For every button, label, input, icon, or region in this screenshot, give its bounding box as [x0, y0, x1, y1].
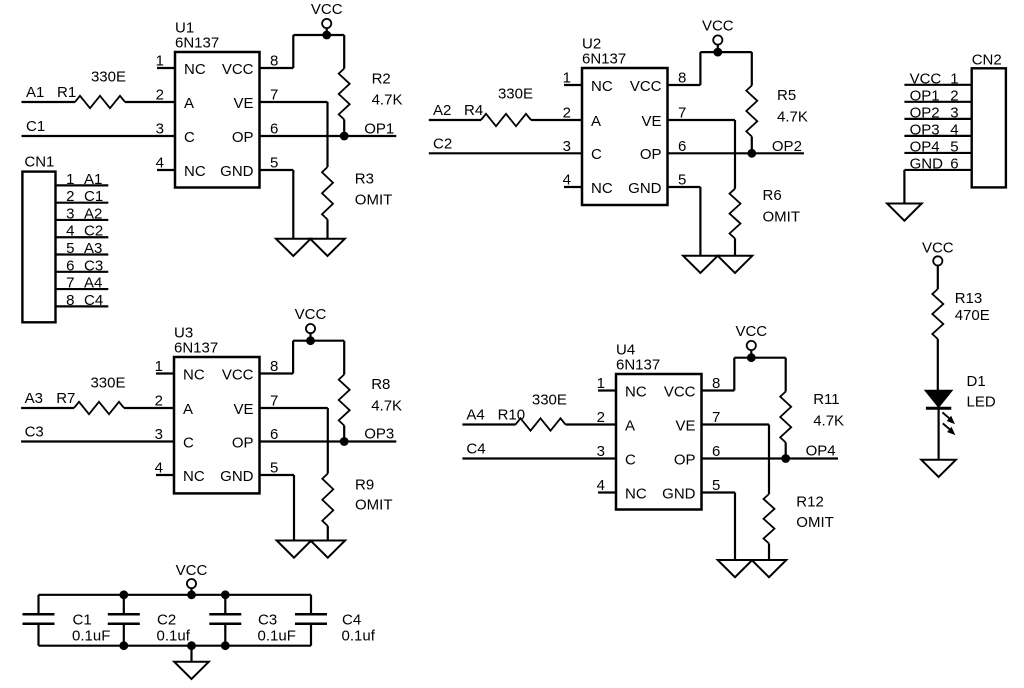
svg-text:VCC: VCC — [311, 1, 343, 18]
resistor R5 4.7K — [746, 52, 808, 153]
junction OP3/R8 — [340, 437, 349, 446]
svg-text:VE: VE — [641, 113, 661, 130]
svg-text:5: 5 — [950, 138, 958, 155]
ground at U2 pin 5 — [683, 256, 718, 273]
svg-text:4: 4 — [66, 223, 74, 240]
svg-text:CN1: CN1 — [24, 154, 54, 171]
svg-text:0.1uF: 0.1uF — [258, 627, 296, 644]
wire U1 pin 5 (GND) to ground — [260, 170, 294, 239]
svg-text:NC: NC — [625, 485, 647, 502]
svg-text:6N137: 6N137 — [174, 340, 218, 357]
svg-text:C3: C3 — [84, 257, 103, 274]
ground at R9 — [311, 541, 346, 558]
CN2 pin 3 wire (OP2) — [904, 104, 971, 121]
LED D1 — [926, 373, 996, 411]
CN2 pin 2 wire (OP1) — [904, 87, 971, 104]
U3 pin 1 stub — [156, 372, 174, 374]
ground at CN2 — [887, 204, 922, 221]
CN1 pin 5 wire (A3) — [56, 240, 109, 257]
power symbol VCC — [735, 323, 767, 358]
svg-text:R9: R9 — [355, 477, 374, 494]
svg-text:OMIT: OMIT — [355, 192, 393, 209]
svg-text:A1: A1 — [26, 84, 44, 101]
svg-text:OP2: OP2 — [910, 104, 940, 121]
wire U3 pin 8 to VCC — [260, 341, 345, 374]
resistor R3 OMIT — [322, 167, 392, 239]
svg-text:6: 6 — [950, 155, 958, 172]
CN1 pin 2 wire (C1) — [56, 188, 109, 205]
ground at R6 — [718, 256, 753, 273]
junction C3 top — [221, 590, 230, 599]
svg-text:R7: R7 — [56, 390, 75, 407]
svg-text:GND: GND — [220, 468, 254, 485]
svg-text:0.1uf: 0.1uf — [157, 627, 191, 644]
svg-text:2: 2 — [66, 188, 74, 205]
wire U4 pin 8 to VCC — [702, 358, 786, 391]
CN2 pin 6 wire (GND) — [904, 155, 971, 172]
svg-text:R8: R8 — [371, 376, 390, 393]
svg-text:C: C — [625, 451, 636, 468]
svg-text:C: C — [183, 434, 194, 451]
svg-text:C2: C2 — [433, 135, 452, 152]
svg-text:R10: R10 — [498, 407, 526, 424]
svg-text:A: A — [183, 401, 193, 418]
U4 pin 1 stub — [598, 389, 616, 391]
wire U2 pin 5 (GND) to ground — [668, 187, 701, 256]
svg-text:NC: NC — [184, 61, 206, 78]
CN1 pin 4 wire (C2) — [56, 223, 109, 240]
svg-text:GND: GND — [220, 163, 254, 180]
node C1 wire — [22, 118, 176, 136]
svg-text:OMIT: OMIT — [796, 514, 834, 531]
junction OP1/R2 — [340, 132, 349, 141]
resistor R7 330E — [56, 375, 125, 415]
svg-text:A2: A2 — [433, 102, 451, 119]
VCC rail (top) of capacitor bank — [39, 594, 312, 596]
resistor R10 330E — [498, 392, 567, 431]
svg-text:A1: A1 — [84, 171, 102, 188]
svg-text:R3: R3 — [355, 171, 374, 188]
svg-text:NC: NC — [625, 383, 647, 400]
U2 pin 1 stub — [564, 84, 582, 86]
junction C2 top — [119, 590, 128, 599]
wire cap rail to ground — [190, 646, 192, 662]
wire U3 pin 5 (GND) to ground — [260, 475, 295, 541]
svg-text:C4: C4 — [466, 441, 485, 458]
ground at R12 — [752, 560, 787, 577]
capacitor C2 0.1uf — [108, 595, 191, 646]
svg-text:470E: 470E — [955, 307, 990, 324]
CN1 pin 8 wire (C4) — [56, 292, 109, 309]
svg-text:C1: C1 — [73, 612, 92, 629]
junction VCC node U1 — [322, 31, 331, 40]
wire U4 pin 5 (GND) to ground — [702, 493, 736, 561]
junction OP4/R11 — [781, 454, 790, 463]
svg-text:OP: OP — [232, 434, 254, 451]
wire U4 pin 7 (VE) to R12 — [702, 425, 770, 495]
node OP1 output wire — [260, 121, 397, 138]
U4 pin 4 stub — [598, 491, 616, 493]
connector CN1 body — [22, 154, 55, 323]
resistor R2 4.7K — [339, 35, 403, 136]
junction VCC node U3 — [306, 336, 315, 345]
svg-text:OP1: OP1 — [364, 121, 394, 138]
svg-text:0.1uF: 0.1uF — [72, 627, 110, 644]
svg-text:VCC: VCC — [910, 70, 942, 87]
op-amp U2 body (6N137 optocoupler) — [582, 36, 668, 206]
svg-text:R13: R13 — [955, 290, 983, 307]
svg-text:VCC: VCC — [222, 61, 254, 78]
svg-text:6N137: 6N137 — [582, 51, 626, 68]
svg-text:VCC: VCC — [735, 323, 767, 340]
svg-text:R4: R4 — [464, 102, 483, 119]
ground rail (bottom) of capacitor bank — [39, 645, 312, 647]
svg-text:C4: C4 — [84, 292, 103, 309]
svg-text:OP: OP — [674, 451, 696, 468]
wire U1 pin 8 to VCC — [260, 35, 345, 68]
node A3 wire — [21, 390, 174, 408]
resistor R6 OMIT — [730, 187, 801, 256]
U3 pin numbers — [155, 358, 279, 477]
node C2 wire — [429, 135, 582, 153]
svg-text:VCC: VCC — [664, 383, 696, 400]
power symbol VCC — [176, 562, 208, 595]
capacitor C3 0.1uF — [209, 595, 296, 646]
svg-text:3: 3 — [950, 104, 958, 121]
svg-text:4.7K: 4.7K — [813, 412, 844, 429]
CN1 pin 1 wire (A1) — [56, 171, 109, 188]
U4 pin numbers — [597, 375, 721, 494]
power symbol VCC — [295, 306, 327, 341]
wire U3 pin 7 (VE) to R9 — [260, 408, 328, 474]
svg-text:C: C — [591, 146, 602, 163]
svg-text:2: 2 — [950, 87, 958, 104]
svg-text:C3: C3 — [258, 612, 277, 629]
resistor R1 330E — [57, 69, 126, 109]
svg-text:VCC: VCC — [630, 78, 662, 95]
wire R13 to D1 — [937, 339, 939, 391]
svg-text:4: 4 — [950, 121, 958, 138]
junction C2 bottom — [119, 641, 128, 650]
junction VCC node U2 — [713, 48, 722, 57]
svg-text:CN2: CN2 — [972, 51, 1002, 68]
svg-text:0.1uf: 0.1uf — [342, 627, 376, 644]
svg-text:D1: D1 — [967, 373, 986, 390]
svg-text:4.7K: 4.7K — [372, 92, 403, 109]
wire VCC to R13 — [937, 265, 939, 289]
wire U1 pin 7 (VE) to R3 — [260, 102, 328, 167]
resistor R12 OMIT — [764, 494, 834, 561]
node OP3 output wire — [260, 426, 397, 443]
node OP2 output wire — [668, 138, 804, 155]
ground at capacitor bank — [174, 662, 209, 679]
resistor R11 4.7K — [780, 358, 844, 459]
U1 pin 4 stub — [157, 169, 175, 171]
U3 pin 4 stub — [156, 474, 174, 476]
CN2 pin 1 wire (VCC) — [904, 70, 971, 87]
connector CN2 body — [972, 51, 1006, 187]
svg-text:OP4: OP4 — [910, 138, 940, 155]
svg-text:C3: C3 — [25, 424, 44, 441]
svg-text:R1: R1 — [57, 84, 76, 101]
svg-text:330E: 330E — [91, 69, 126, 86]
node A2 wire — [429, 102, 582, 120]
svg-text:OP1: OP1 — [910, 87, 940, 104]
svg-text:VCC: VCC — [222, 366, 254, 383]
U2 pin numbers — [563, 70, 687, 189]
power symbol VCC — [311, 1, 343, 35]
junction VCC/cap rail — [187, 590, 196, 599]
CN2 pin 4 wire (OP3) — [904, 121, 971, 138]
svg-text:OMIT: OMIT — [763, 209, 801, 226]
CN2 pin 5 wire (OP4) — [904, 138, 971, 155]
svg-text:6: 6 — [66, 257, 74, 274]
svg-text:A4: A4 — [466, 407, 484, 424]
node A4 wire — [462, 407, 616, 425]
svg-text:OP2: OP2 — [772, 138, 802, 155]
U1 pin numbers — [156, 53, 279, 172]
resistor R4 330E — [464, 86, 533, 127]
svg-text:NC: NC — [183, 366, 205, 383]
svg-text:GND: GND — [910, 155, 944, 172]
svg-text:A3: A3 — [25, 390, 43, 407]
svg-text:6N137: 6N137 — [616, 357, 660, 374]
svg-text:VCC: VCC — [295, 306, 327, 323]
svg-text:LED: LED — [967, 393, 996, 410]
svg-text:R6: R6 — [763, 187, 782, 204]
svg-text:OP3: OP3 — [364, 426, 394, 443]
junction C3 bottom — [221, 641, 230, 650]
node C3 wire — [21, 424, 174, 442]
LED D1 emission arrows — [942, 412, 954, 434]
svg-text:C2: C2 — [157, 612, 176, 629]
svg-text:C4: C4 — [342, 612, 361, 629]
junction ground/cap rail — [187, 641, 196, 650]
svg-text:C: C — [184, 129, 195, 146]
node C4 wire — [462, 441, 616, 459]
capacitor C4 0.1uf — [295, 595, 376, 646]
svg-text:GND: GND — [662, 485, 696, 502]
svg-text:OP: OP — [640, 146, 662, 163]
svg-text:OMIT: OMIT — [355, 497, 393, 514]
svg-text:VE: VE — [233, 401, 253, 418]
ground at U4 pin 5 — [718, 560, 753, 577]
svg-text:GND: GND — [628, 180, 662, 197]
svg-text:A3: A3 — [84, 240, 102, 257]
junction VCC node U4 — [747, 353, 756, 362]
svg-text:R5: R5 — [777, 87, 796, 104]
svg-text:4.7K: 4.7K — [777, 109, 808, 126]
svg-text:NC: NC — [183, 468, 205, 485]
op-amp U3 body (6N137 optocoupler) — [174, 325, 260, 494]
svg-text:A4: A4 — [84, 275, 102, 292]
svg-text:C1: C1 — [26, 118, 45, 135]
wire U2 pin 7 (VE) to R6 — [668, 120, 736, 189]
node A1 wire — [22, 84, 176, 102]
svg-text:C2: C2 — [84, 223, 103, 240]
svg-text:R2: R2 — [372, 71, 391, 88]
svg-text:1: 1 — [950, 70, 958, 87]
ground at D1 — [921, 460, 956, 477]
ground at R3 — [310, 239, 345, 256]
op-amp U4 body (6N137 optocoupler) — [616, 342, 702, 510]
svg-text:4.7K: 4.7K — [371, 398, 402, 415]
CN1 pin 3 wire (A2) — [56, 205, 109, 222]
svg-text:A: A — [184, 95, 194, 112]
ground at U3 pin 5 — [277, 541, 312, 558]
resistor R9 OMIT — [322, 474, 392, 541]
svg-text:1: 1 — [66, 171, 74, 188]
svg-text:330E: 330E — [90, 375, 125, 392]
svg-text:VCC: VCC — [702, 18, 734, 35]
svg-text:R11: R11 — [813, 391, 839, 408]
power symbol VCC — [922, 239, 954, 266]
svg-text:8: 8 — [66, 292, 74, 309]
svg-text:7: 7 — [66, 275, 74, 292]
svg-text:OP3: OP3 — [910, 121, 940, 138]
CN1 pin 6 wire (C3) — [56, 257, 109, 274]
svg-text:5: 5 — [66, 240, 74, 257]
svg-text:OP: OP — [232, 129, 254, 146]
U2 pin 4 stub — [564, 186, 582, 188]
CN1 pin 7 wire (A4) — [56, 275, 109, 292]
U1 pin 1 stub — [157, 67, 175, 69]
resistor R13 470E — [932, 289, 989, 339]
svg-text:NC: NC — [591, 180, 613, 197]
svg-text:330E: 330E — [532, 392, 567, 409]
ground at U1 pin 5 — [276, 239, 311, 256]
svg-text:OP4: OP4 — [806, 442, 836, 459]
svg-text:6N137: 6N137 — [175, 35, 219, 52]
wire U2 pin 8 to VCC — [668, 52, 752, 85]
svg-text:3: 3 — [66, 205, 74, 222]
power symbol VCC — [702, 18, 734, 53]
capacitor C1 0.1uF — [23, 595, 111, 646]
svg-text:A: A — [625, 417, 635, 434]
svg-text:NC: NC — [184, 163, 206, 180]
svg-text:VCC: VCC — [176, 562, 208, 579]
svg-text:330E: 330E — [498, 86, 533, 103]
svg-text:VE: VE — [233, 95, 253, 112]
wire CN2 pin 6 to ground — [903, 170, 905, 204]
op-amp U1 body (6N137 optocoupler) — [175, 20, 260, 188]
svg-text:C1: C1 — [84, 188, 103, 205]
svg-text:R12: R12 — [796, 494, 824, 511]
junction OP2/R5 — [747, 149, 756, 158]
node OP4 output wire — [702, 442, 839, 459]
svg-text:VCC: VCC — [922, 239, 954, 256]
svg-text:VE: VE — [675, 417, 695, 434]
svg-text:A2: A2 — [84, 205, 102, 222]
wire D1 to ground — [937, 408, 939, 460]
svg-text:A: A — [591, 113, 601, 130]
resistor R8 4.7K — [339, 341, 402, 442]
svg-text:NC: NC — [591, 78, 613, 95]
